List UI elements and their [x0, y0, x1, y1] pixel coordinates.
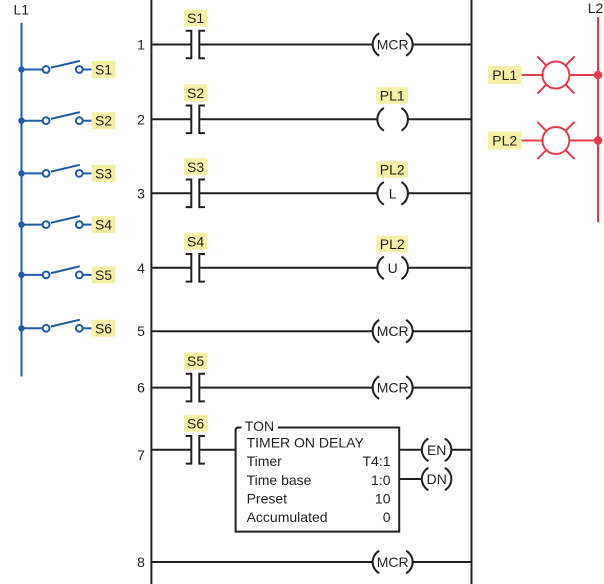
svg-text:L2: L2	[588, 0, 604, 16]
svg-text:S2: S2	[187, 85, 204, 101]
svg-text:MCR: MCR	[377, 554, 409, 570]
svg-text:0: 0	[383, 509, 391, 525]
svg-text:Preset: Preset	[247, 491, 288, 507]
svg-text:T4:1: T4:1	[362, 453, 390, 469]
svg-text:S5: S5	[187, 353, 204, 369]
svg-text:S4: S4	[187, 233, 204, 249]
svg-text:4: 4	[137, 260, 145, 276]
svg-text:L1: L1	[14, 2, 30, 18]
svg-text:L: L	[389, 185, 397, 201]
svg-text:Accumulated: Accumulated	[247, 509, 328, 525]
svg-text:2: 2	[137, 111, 145, 127]
svg-text:PL1: PL1	[492, 67, 517, 83]
svg-text:1:0: 1:0	[371, 472, 391, 488]
svg-text:S6: S6	[187, 415, 204, 431]
svg-text:MCR: MCR	[377, 37, 409, 53]
svg-text:EN: EN	[427, 442, 446, 458]
svg-text:S2: S2	[95, 113, 112, 129]
svg-text:DN: DN	[427, 471, 447, 487]
svg-text:S1: S1	[95, 62, 112, 78]
svg-text:U: U	[388, 260, 398, 276]
svg-text:Time base: Time base	[247, 472, 312, 488]
svg-text:S1: S1	[187, 10, 204, 26]
svg-text:S5: S5	[95, 267, 112, 283]
svg-text:S6: S6	[95, 320, 112, 336]
svg-text:MCR: MCR	[377, 323, 409, 339]
svg-text:PL1: PL1	[380, 87, 405, 103]
svg-text:S3: S3	[187, 159, 204, 175]
svg-text:TON: TON	[245, 418, 274, 434]
svg-text:PL2: PL2	[380, 236, 405, 252]
svg-text:6: 6	[137, 380, 145, 396]
svg-text:MCR: MCR	[377, 380, 409, 396]
svg-text:1: 1	[137, 37, 145, 53]
svg-text:3: 3	[137, 185, 145, 201]
svg-text:5: 5	[137, 323, 145, 339]
svg-text:10: 10	[375, 491, 391, 507]
svg-text:PL2: PL2	[492, 133, 517, 149]
svg-text:PL2: PL2	[380, 161, 405, 177]
svg-text:Timer: Timer	[247, 453, 283, 469]
svg-text:TIMER ON DELAY: TIMER ON DELAY	[247, 434, 365, 450]
svg-text:7: 7	[137, 447, 145, 463]
svg-text:S4: S4	[95, 217, 112, 233]
svg-text:S3: S3	[95, 165, 112, 181]
svg-text:8: 8	[137, 554, 145, 570]
